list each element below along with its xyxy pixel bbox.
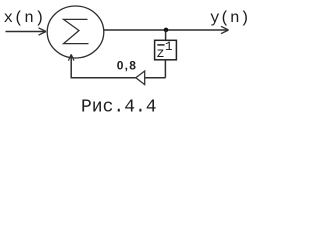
svg-text:Рис.4.4: Рис.4.4 — [81, 98, 157, 118]
svg-text:0,8: 0,8 — [117, 59, 137, 73]
svg-text:z: z — [156, 46, 164, 62]
svg-text:x(n): x(n) — [4, 9, 46, 27]
svg-text:y(n): y(n) — [210, 9, 250, 27]
svg-text:1: 1 — [165, 39, 173, 54]
